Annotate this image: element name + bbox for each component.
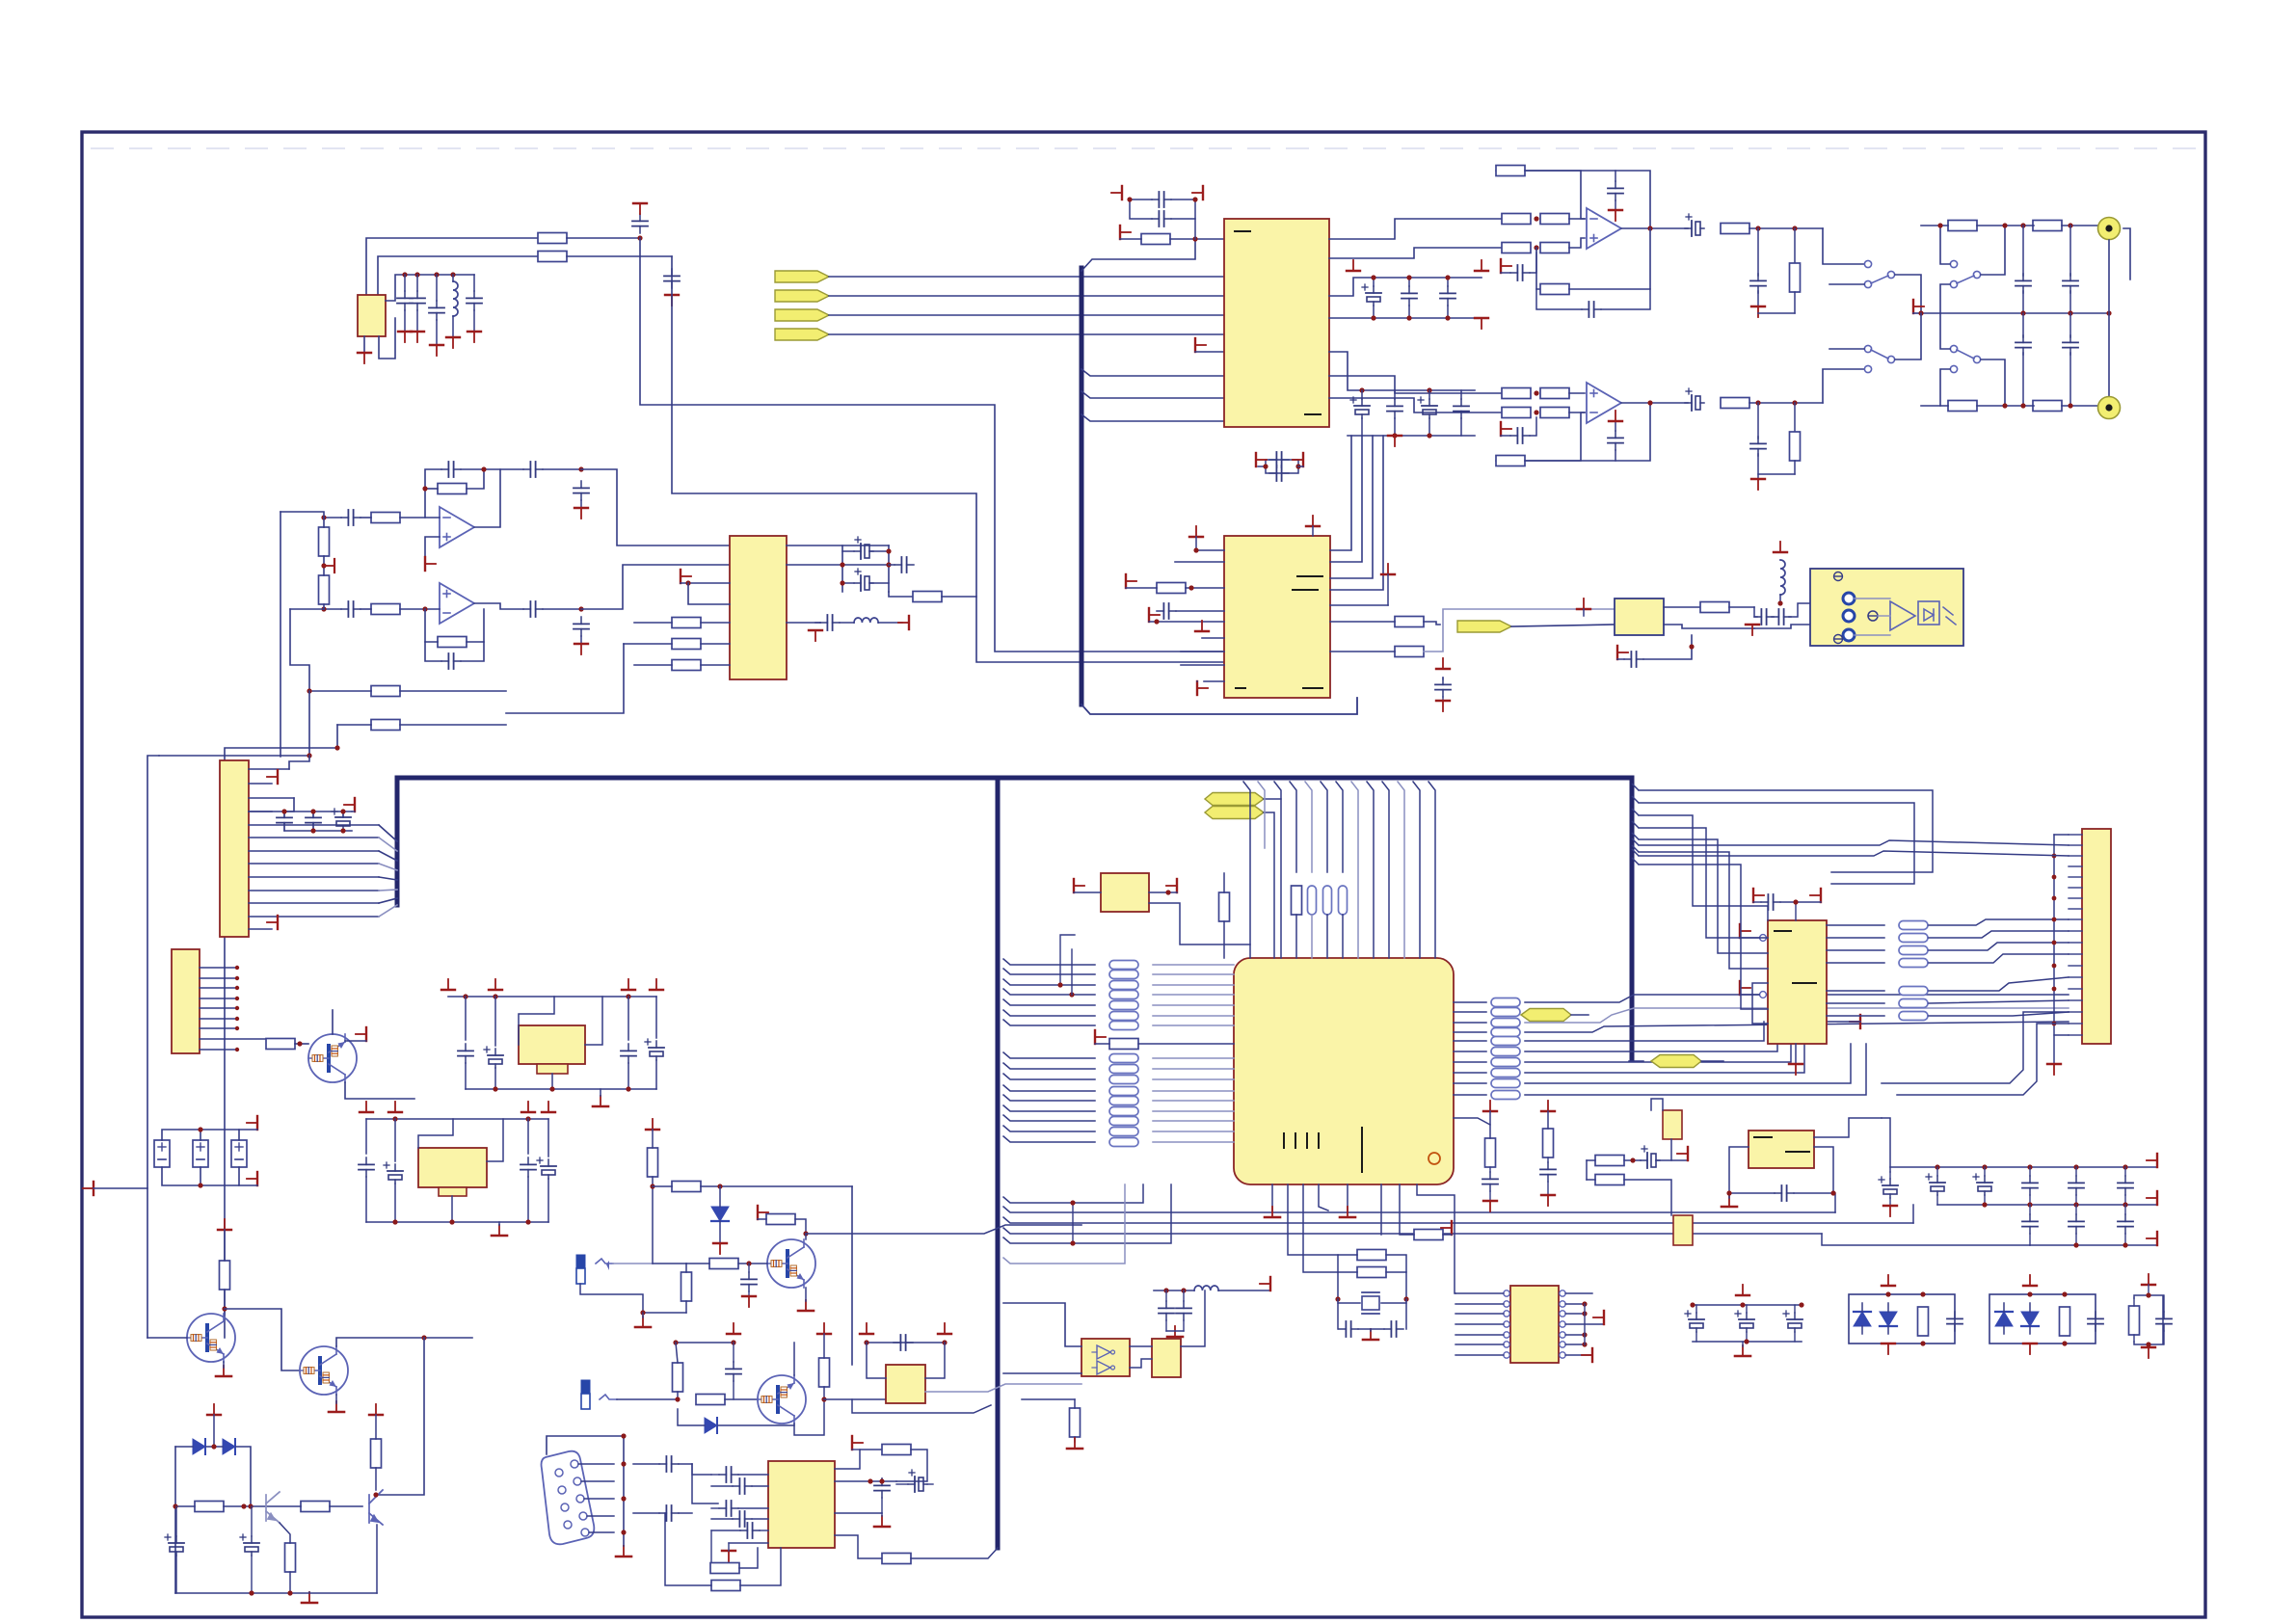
wire output (1621, 402, 1688, 404)
power tick (1541, 1195, 1555, 1206)
small box U12b (1152, 1339, 1181, 1377)
capacitor C8 input (341, 510, 360, 525)
wire corner jogs (1632, 784, 1639, 865)
wire (1569, 218, 1585, 220)
wire jog (1081, 369, 1224, 376)
ground (593, 1096, 608, 1106)
ground tick (2142, 1347, 2155, 1358)
wire U7 bottom (1795, 1044, 1797, 1064)
resistor R69 (1595, 1175, 1624, 1185)
node (650, 1184, 654, 1188)
wire (1569, 412, 1585, 413)
wire (224, 1290, 226, 1315)
wire (805, 1234, 807, 1239)
ground (1340, 1207, 1355, 1217)
wire (842, 550, 854, 552)
node (450, 272, 455, 277)
wire (1074, 1399, 1076, 1408)
wire (1814, 1118, 1882, 1137)
power tick (2147, 1232, 2157, 1245)
resistor R9 (371, 686, 400, 697)
wire (1569, 392, 1585, 394)
resistor R57 (1070, 1408, 1081, 1437)
transformer U5 (1615, 599, 1664, 635)
node (2073, 1242, 2078, 1247)
wire (1629, 1060, 1643, 1062)
power tick (1740, 981, 1750, 995)
MCU right rows group2 (1454, 1041, 1486, 1095)
capacitor C43 (1157, 603, 1176, 619)
resistor R56 (819, 1358, 830, 1387)
wire (225, 725, 337, 1338)
capacitor C90 electrolytic (1783, 1311, 1802, 1332)
capacitor C31 (1608, 431, 1623, 450)
node (2020, 310, 2025, 315)
wire (270, 1039, 272, 1044)
MCU inner marks (1283, 1133, 1285, 1148)
wire (665, 1513, 711, 1585)
pin mark (1305, 413, 1321, 415)
capacitor C35 (1402, 286, 1417, 306)
wire (842, 582, 854, 584)
resistor R50 (672, 1182, 701, 1192)
wire (280, 1523, 290, 1543)
wire (1003, 1184, 1125, 1264)
capacitor C24 series (1685, 214, 1704, 236)
resistor R43 (371, 1439, 382, 1468)
power tick (247, 1116, 257, 1130)
power tick (2023, 1275, 2037, 1286)
wire riser 1 (1330, 436, 1351, 550)
op-amp A1 (440, 507, 474, 547)
resistor R70 (1918, 1307, 1929, 1336)
pin marks (1297, 575, 1322, 577)
node (1371, 275, 1375, 279)
resistor R17 (1540, 214, 1569, 225)
wire (1330, 651, 1395, 652)
resistor R55 base (696, 1395, 725, 1405)
capacitor C55 (521, 1157, 536, 1177)
wire (829, 276, 1224, 278)
wire U3 right caps (787, 545, 842, 592)
MCU left row group2 (1003, 1052, 1095, 1079)
wire (337, 724, 371, 726)
switch S4 (1950, 345, 1957, 352)
node (297, 1041, 302, 1046)
rail (1154, 1290, 1194, 1291)
wire U11 to bus (925, 1384, 1081, 1392)
capacitor C84 (2118, 1176, 2133, 1195)
bus divider (996, 780, 1001, 1548)
node (321, 515, 326, 519)
power tick (425, 557, 436, 571)
capacitor C76 (1540, 1162, 1556, 1182)
resistor R49 (648, 1148, 658, 1177)
node (864, 1340, 868, 1344)
wire J1 pin1 up (289, 756, 309, 769)
power tick (1388, 436, 1402, 446)
diode D2 (223, 1439, 235, 1454)
wire input column (280, 512, 324, 518)
resistor R7 bias ladder (319, 527, 330, 556)
wire (465, 997, 467, 1040)
capacitor C16 (854, 569, 873, 591)
power tick (1677, 1147, 1688, 1160)
ground (1167, 1326, 1183, 1337)
wire (1664, 625, 1754, 628)
vertical bus (623, 1436, 625, 1546)
node (1359, 387, 1364, 392)
capacitor C7 feedback (441, 462, 461, 477)
capacitor C1 (632, 214, 648, 233)
capacitor C61 (733, 1478, 752, 1494)
power tick (1189, 526, 1203, 537)
wire (1003, 1303, 1081, 1346)
capacitor C27 (2069, 226, 2071, 276)
wire IC1 to ladder L2 (1329, 248, 1502, 258)
wire (653, 1185, 672, 1187)
node (1690, 1302, 1695, 1307)
capacitor C53 (359, 1157, 374, 1177)
power tick (1751, 479, 1765, 490)
power tick (1740, 924, 1750, 938)
power tick (473, 275, 475, 291)
resistor R22 (1721, 224, 1749, 234)
resistor R62 pullup pair (1072, 1203, 1074, 1243)
wire (1525, 1008, 2069, 1023)
ground (1265, 1207, 1280, 1217)
power tick (1582, 1348, 1592, 1362)
wire (1822, 1234, 2030, 1245)
capacitor C29 (2069, 313, 2071, 337)
inverter 2 (1097, 1361, 1110, 1374)
wire (1511, 625, 1615, 626)
capacitor C85 (2022, 1214, 2038, 1234)
capacitor C66 electrolytic (908, 1470, 927, 1492)
capacitor C77 electrolytic (1641, 1146, 1660, 1168)
resistor R64 (1357, 1267, 1386, 1278)
resistor pack RP7 (1899, 987, 1928, 996)
wire (867, 1343, 886, 1378)
power tick (681, 570, 691, 583)
wire (1754, 625, 1810, 628)
IC U2 (1224, 219, 1329, 427)
power tick (1617, 646, 1628, 659)
wire (1624, 1180, 1671, 1215)
IC U1 (358, 295, 386, 336)
wire (1569, 238, 1585, 248)
transistor Q6 (767, 1239, 815, 1288)
capacitor C94 (1436, 658, 1450, 669)
wire (1130, 1359, 1152, 1368)
IC U3 DSP (730, 536, 787, 679)
resistor R34 (2033, 401, 2062, 412)
wire (1754, 607, 1757, 617)
wire (1130, 199, 1152, 200)
wire (1329, 398, 1502, 412)
power tick (1111, 186, 1122, 200)
power tick (358, 353, 371, 363)
resistor R11 (672, 618, 701, 628)
wire (1536, 289, 1582, 309)
node (198, 1127, 202, 1131)
power tick (817, 1323, 831, 1334)
wire (829, 295, 1224, 297)
headphone jack JK1 (576, 1255, 585, 1268)
wire (787, 564, 889, 566)
wire (852, 1399, 991, 1413)
capacitor C62 (719, 1501, 738, 1516)
capacitor C64 (740, 1523, 760, 1538)
capacitor C25 (1757, 228, 1759, 276)
node (402, 272, 407, 277)
J2 pin stubs (200, 968, 271, 1050)
net arrow 6 (1205, 807, 1264, 819)
capacitor C40 (1454, 399, 1469, 418)
node (1982, 1202, 1987, 1207)
node (281, 809, 286, 813)
LED D6 (1854, 1303, 1871, 1334)
power tick (1441, 1221, 1452, 1235)
capacitor C3 (397, 291, 413, 310)
power tick (1260, 1277, 1270, 1290)
wire base (147, 1337, 187, 1339)
resistor R12 (672, 639, 701, 650)
power tick (360, 1102, 373, 1112)
wire (1223, 873, 1225, 892)
capacitor C45 (1754, 609, 1774, 625)
wire (1330, 621, 1395, 623)
power tick (356, 1027, 366, 1041)
wire jack sleeve (580, 1284, 686, 1313)
capacitor C70 (1159, 1301, 1174, 1320)
series resistors on fan (1292, 886, 1302, 915)
node (1755, 400, 1760, 405)
node (1647, 226, 1652, 230)
bus taps (2052, 854, 2057, 1026)
power tick (633, 203, 647, 214)
wire (1181, 1290, 1205, 1346)
op-amp B2 (1587, 383, 1621, 423)
rail3 (2030, 1244, 2157, 1246)
wire (1525, 171, 1650, 228)
power tick (441, 979, 455, 990)
wire (506, 644, 624, 713)
resistor pack RP3 (1109, 1087, 1138, 1096)
node (640, 1310, 645, 1315)
resistor R2 (538, 252, 567, 262)
opto inner circle (1868, 611, 1878, 621)
resistor R41 (195, 1502, 224, 1512)
power tick (1195, 338, 1206, 352)
capacitor C89 electrolytic (1735, 1311, 1754, 1332)
capacitor C59 (659, 1456, 679, 1472)
diode D4 (705, 1418, 717, 1433)
capacitor C72 (1339, 1321, 1358, 1337)
node (840, 562, 844, 567)
feedback wire (1496, 171, 1585, 219)
net arrow out (1457, 621, 1511, 632)
capacitor C51 (621, 1044, 636, 1063)
wire (1202, 637, 1224, 639)
power tick (1256, 453, 1267, 466)
node (1937, 223, 1942, 227)
inductor L3 (1780, 560, 1785, 595)
opto led (1924, 609, 1934, 621)
node (1755, 226, 1760, 230)
wire (425, 609, 438, 642)
power tick (404, 275, 406, 291)
battery cell 1 (154, 1140, 170, 1167)
wire collector (336, 1338, 472, 1346)
capacitor C86 (2069, 1214, 2084, 1234)
ground (798, 1300, 814, 1311)
crystal Y2 (1362, 1292, 1379, 1314)
node (310, 828, 315, 833)
node (717, 1184, 722, 1188)
wire (567, 255, 672, 257)
node (434, 272, 439, 277)
capacitor C5 (429, 301, 444, 320)
node (307, 753, 311, 758)
resistor R4 input (371, 513, 400, 523)
MCU left row group3 (1003, 1085, 1095, 1142)
wire (1175, 561, 1224, 563)
wire (613, 1263, 653, 1264)
wire opto internal (1855, 598, 1890, 599)
node (673, 1340, 678, 1344)
power tick (1347, 260, 1360, 271)
capacitor C22 (1608, 181, 1623, 200)
capacitor C75 (1482, 1172, 1498, 1191)
resistor R67 (1543, 1129, 1554, 1157)
wire (1749, 227, 1823, 229)
wires to connector (1929, 919, 2069, 1016)
LED D7 (1880, 1303, 1897, 1334)
resistor R8 bias ladder (319, 575, 330, 604)
wire (365, 1119, 367, 1154)
power tick (1149, 608, 1160, 622)
wire (1264, 812, 1274, 958)
MCU U16 (1234, 958, 1454, 1184)
wire (324, 608, 341, 610)
power tick (1483, 1201, 1497, 1211)
wire (375, 1468, 377, 1490)
LED box 1 (1849, 1294, 1955, 1344)
power tick (742, 1296, 756, 1307)
power tick (898, 616, 909, 629)
power tick (2142, 1274, 2155, 1285)
wire jog (1081, 391, 1224, 398)
U7 right rows (1827, 925, 1884, 1016)
wire (2133, 1298, 2135, 1306)
power tick (860, 1323, 873, 1334)
capacitor C14 (574, 617, 589, 636)
switch S2 (1950, 260, 1957, 267)
wire J1 pin3 (284, 798, 294, 811)
wire collector (793, 1343, 795, 1375)
node (1534, 390, 1538, 395)
capacitor C79 electrolytic (1879, 1177, 1898, 1198)
wire (889, 592, 912, 597)
wire crossing bus (806, 1225, 1081, 1234)
wire (617, 1398, 678, 1400)
resistor R26 (1502, 388, 1531, 399)
zener D5 (711, 1207, 729, 1221)
resistor pack RP6 (1899, 921, 1928, 930)
regulator U8 (519, 1025, 585, 1064)
U13 pins right (1560, 1290, 1565, 1358)
wire (738, 1263, 767, 1264)
capacitor C69 (894, 1335, 913, 1350)
wire (1664, 606, 1700, 608)
power tick (344, 798, 355, 811)
node (675, 1397, 680, 1401)
power tick (646, 1119, 659, 1130)
node (1935, 1164, 1939, 1169)
bus vertical (1080, 268, 1084, 705)
pull resistors R60 R61 (1060, 935, 1075, 985)
pin1 mark (1235, 230, 1250, 232)
power tick (1095, 1030, 1106, 1044)
capacitor C73 (1384, 1321, 1403, 1337)
wire (147, 756, 159, 1338)
capacitor C6 (467, 291, 482, 310)
resistor R19 (1540, 243, 1569, 253)
power tick (207, 1404, 221, 1415)
LED box 2 (1989, 1294, 2096, 1344)
jack switch curve (600, 1395, 617, 1399)
wire (451, 1196, 453, 1222)
transistor Q2 (187, 1314, 235, 1362)
battery cell 3 (231, 1140, 247, 1167)
ground (1363, 1329, 1378, 1340)
wire (1921, 225, 1948, 226)
switch S3 (1823, 369, 1864, 403)
wire (1400, 1184, 1414, 1235)
capacitor C65 (874, 1478, 890, 1498)
wire (309, 690, 371, 692)
wire (363, 336, 365, 353)
node (1647, 400, 1652, 405)
wire IC1 to ladder L (1329, 219, 1502, 239)
power tick (758, 1206, 768, 1219)
wire (175, 1446, 193, 1448)
net arrow 3 (775, 309, 829, 321)
capacitor C12 (574, 481, 589, 500)
bottom rail (366, 1221, 548, 1223)
wire (1794, 1147, 1833, 1193)
op-amp B1 (1587, 208, 1621, 249)
capacitor C67 (741, 1272, 757, 1291)
power tick (436, 275, 438, 301)
connector J2 (172, 949, 200, 1053)
wire (652, 1177, 654, 1264)
bus frame top (397, 778, 1632, 1060)
capacitor C19 (1152, 192, 1171, 207)
net arrow 4 (775, 329, 829, 340)
resistor R63 (1357, 1250, 1386, 1261)
power tick (218, 1219, 231, 1230)
wire (1525, 403, 1650, 461)
capacitor C93 (2156, 1312, 2172, 1331)
power tick (727, 1323, 740, 1334)
wire (725, 1398, 758, 1400)
power tick (1381, 564, 1395, 574)
wire emitter (794, 1399, 824, 1435)
IC U17 (1101, 873, 1149, 912)
capacitor C4 (410, 291, 425, 310)
